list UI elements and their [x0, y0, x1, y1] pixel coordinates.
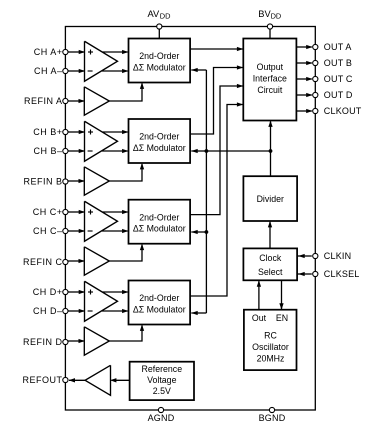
svg-text:Clock: Clock: [259, 253, 282, 263]
svg-text:CLKSEL: CLKSEL: [324, 269, 360, 279]
svg-text:Circuit: Circuit: [257, 85, 282, 95]
svg-text:EN: EN: [276, 313, 288, 323]
svg-text:ΔΣ Modulator: ΔΣ Modulator: [133, 143, 186, 153]
svg-text:2nd-Order: 2nd-Order: [139, 132, 179, 142]
svg-text:CLKIN: CLKIN: [324, 251, 352, 261]
svg-text:20MHz: 20MHz: [257, 354, 285, 364]
svg-text:CH D+: CH D+: [33, 287, 63, 297]
svg-text:2nd-Order: 2nd-Order: [139, 293, 179, 303]
svg-text:REFIN D: REFIN D: [23, 337, 63, 347]
svg-text:2.5V: 2.5V: [153, 386, 171, 396]
svg-text:REFIN A: REFIN A: [24, 96, 63, 106]
svg-text:RC: RC: [264, 331, 277, 341]
svg-text:AV: AV: [148, 9, 161, 19]
svg-text:2nd-Order: 2nd-Order: [139, 212, 179, 222]
svg-text:REFIN B: REFIN B: [23, 177, 62, 187]
svg-text:OUT C: OUT C: [324, 74, 353, 84]
svg-text:Reference: Reference: [142, 364, 183, 374]
svg-text:CH C+: CH C+: [33, 207, 63, 217]
svg-text:Interface: Interface: [253, 74, 287, 84]
svg-text:2nd-Order: 2nd-Order: [139, 51, 179, 61]
svg-text:BV: BV: [258, 9, 271, 19]
svg-text:AGND: AGND: [148, 413, 175, 423]
svg-text:ΔΣ Modulator: ΔΣ Modulator: [133, 224, 186, 234]
svg-text:Oscillator: Oscillator: [252, 342, 289, 352]
svg-text:Out: Out: [252, 313, 267, 323]
svg-text:CH C–: CH C–: [33, 226, 63, 236]
svg-text:Select: Select: [258, 267, 283, 277]
svg-text:ΔΣ Modulator: ΔΣ Modulator: [133, 304, 186, 314]
svg-text:CH B–: CH B–: [33, 146, 62, 156]
svg-text:Output: Output: [257, 62, 284, 72]
svg-text:CH B+: CH B+: [33, 127, 62, 137]
svg-text:REFIN C: REFIN C: [23, 257, 63, 267]
svg-text:CH D–: CH D–: [33, 306, 63, 316]
svg-text:CH A+: CH A+: [34, 47, 63, 57]
svg-text:BGND: BGND: [259, 413, 286, 423]
svg-text:CLKOUT: CLKOUT: [324, 106, 362, 116]
svg-text:Voltage: Voltage: [147, 375, 176, 385]
svg-text:OUT D: OUT D: [324, 90, 353, 100]
svg-text:OUT A: OUT A: [324, 42, 352, 52]
svg-text:DD: DD: [271, 12, 282, 21]
svg-text:DD: DD: [160, 12, 171, 21]
svg-text:OUT B: OUT B: [324, 58, 352, 68]
svg-text:Divider: Divider: [257, 194, 284, 204]
svg-text:CH A–: CH A–: [34, 66, 63, 76]
svg-text:REFOUT: REFOUT: [23, 375, 63, 385]
svg-text:ΔΣ Modulator: ΔΣ Modulator: [133, 62, 186, 72]
